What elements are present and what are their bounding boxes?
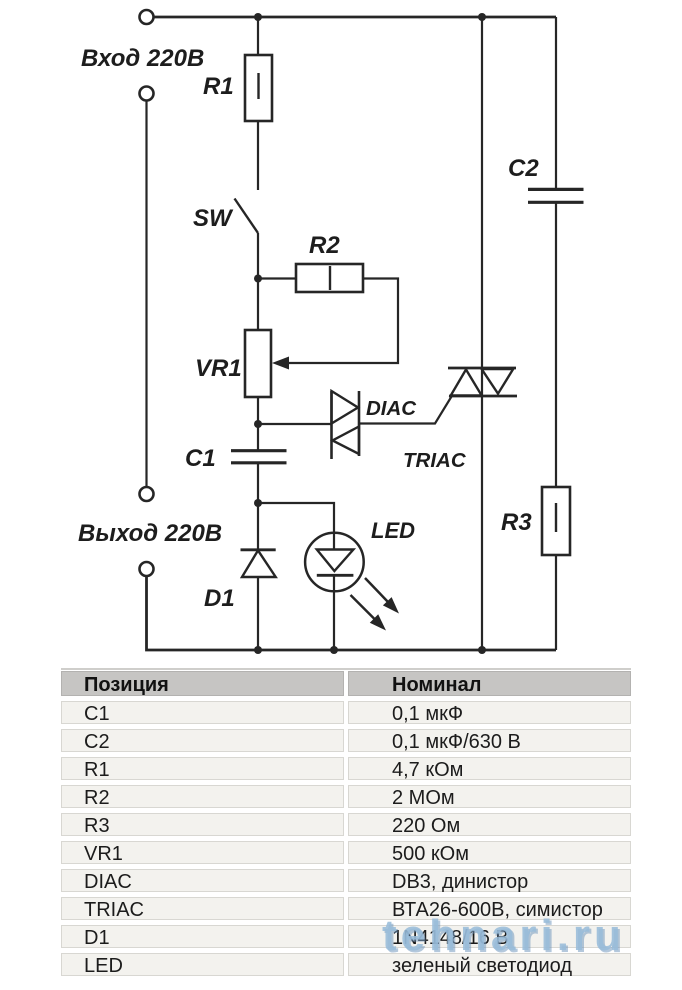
- switch SW: [235, 199, 259, 234]
- svg-text:TRIAC: TRIAC: [403, 449, 467, 472]
- wire to LED branch: [258, 503, 334, 550]
- wire diac to triac gate: [359, 397, 452, 424]
- svg-text:R2: R2: [309, 232, 340, 259]
- led arrow 1: [365, 578, 399, 614]
- capacitor C1: [231, 451, 287, 463]
- potentiometer VR1: [245, 330, 271, 397]
- resistor R2: [296, 264, 363, 292]
- resistor R3: [542, 487, 570, 555]
- svg-text:VR1: VR1: [195, 355, 242, 382]
- wire D1 to bottom: [257, 577, 259, 650]
- label DIAC: [366, 397, 417, 420]
- svg-text:Выход 220В: Выход 220В: [78, 520, 222, 547]
- svg-text:C1: C1: [185, 445, 216, 472]
- wire bottom rail: [147, 576, 557, 650]
- label C2: [508, 155, 539, 182]
- led arrow 2: [351, 595, 387, 631]
- svg-text:Вход 220В: Вход 220В: [81, 45, 204, 72]
- wire R3 to bottom: [555, 555, 557, 650]
- node dot top triac: [478, 13, 486, 21]
- label TRIAC: [403, 449, 467, 472]
- svg-text:D1: D1: [204, 585, 235, 612]
- wiper arrow of VR1: [272, 357, 289, 370]
- watermark tehnari.ru: [382, 911, 625, 961]
- label SW: [193, 205, 234, 232]
- label LED: [371, 518, 415, 543]
- diac DIAC: [332, 391, 360, 459]
- output terminal top: [140, 487, 154, 501]
- node dot bottom triac: [478, 646, 486, 654]
- svg-text:DIAC: DIAC: [366, 397, 417, 420]
- wire R2 right feedback to wiper: [287, 279, 398, 364]
- label Выход 220В: [78, 520, 222, 547]
- triac TRIAC: [448, 368, 517, 396]
- label D1: [204, 585, 235, 612]
- wire VR1 to C1: [257, 397, 259, 450]
- node junction led wire: [254, 499, 262, 507]
- input terminal bottom: [140, 87, 154, 101]
- wire triac main vertical: [481, 17, 483, 650]
- wire top rail: [154, 16, 556, 19]
- diode D1: [241, 550, 276, 577]
- output terminal bottom: [140, 562, 154, 576]
- label R1: [203, 73, 234, 100]
- input terminal top: [140, 10, 154, 24]
- wire C2 R3 branch top: [555, 17, 557, 190]
- svg-text:R3: R3: [501, 509, 532, 536]
- svg-text:R1: R1: [203, 73, 234, 100]
- wire C2 to R3: [555, 203, 557, 488]
- wire R2 left lead: [258, 277, 296, 279]
- resistor R1: [245, 55, 272, 121]
- svg-text:LED: LED: [371, 518, 415, 543]
- components table: [61, 668, 631, 981]
- node dot bottom D1: [254, 646, 262, 654]
- node dot bottom LED: [330, 646, 338, 654]
- wire C1 to D1: [257, 463, 259, 549]
- label Вход 220В: [81, 45, 204, 72]
- capacitor C2: [528, 189, 584, 202]
- svg-text:SW: SW: [193, 205, 234, 232]
- label R3: [501, 509, 532, 536]
- wire R1 to switch: [257, 121, 259, 190]
- led LED: [305, 533, 364, 592]
- label R2: [309, 232, 340, 259]
- node dot top R1: [254, 13, 262, 21]
- wire R1 top lead: [257, 17, 259, 55]
- node junction R2 left: [254, 275, 262, 283]
- wire switch to VR1: [257, 233, 259, 330]
- node junction diac wire: [254, 420, 262, 428]
- wire to diac left: [258, 423, 332, 425]
- svg-text:C2: C2: [508, 155, 539, 182]
- label C1: [185, 445, 216, 472]
- label VR1: [195, 355, 242, 382]
- wire LED to bottom: [333, 575, 335, 650]
- wire left rail: [145, 101, 147, 488]
